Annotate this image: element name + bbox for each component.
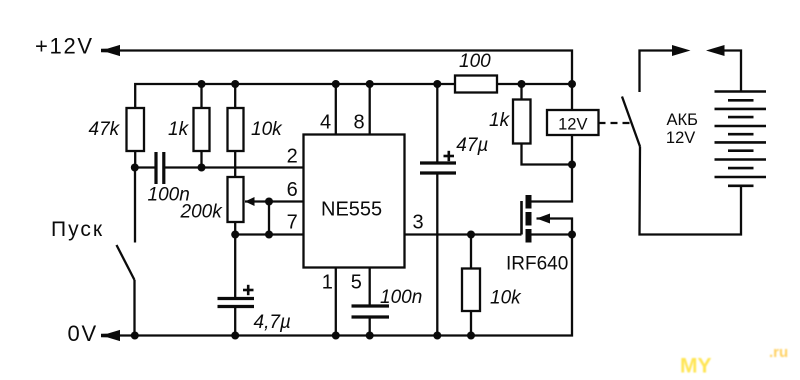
svg-text:47k: 47k [89,119,121,140]
capacitor C4 47µ electrolytic [420,84,456,336]
resistor R5 100 [455,76,497,93]
junction R7 bottom / ground rail [467,332,475,340]
C4 plus sign [444,151,455,161]
junction C4 bottom / ground rail [433,332,441,340]
wire ground rail [101,235,572,336]
junction R6 bottom / relay / drain [568,161,576,169]
svg-text:5: 5 [351,272,362,294]
op IC U1 NE555 [304,84,522,336]
junction pot bottom / pin7 net [231,231,239,239]
resistor R6 1k (gate feed) [513,84,572,165]
svg-text:4,7µ: 4,7µ [254,312,291,333]
svg-text:0V: 0V [68,321,99,346]
junction wiper / pin6 net [265,198,273,206]
junction link / pin7 net [265,231,273,239]
junction R2-1k bottom / pin2 net [198,164,206,172]
battery top arrow right [672,45,691,56]
svg-text:8: 8 [353,112,364,134]
Пуск switch S1 [117,168,136,336]
svg-text:10k: 10k [251,119,283,140]
svg-text:+12V: +12V [35,34,94,59]
svg-text:.ru: .ru [769,344,788,361]
C2 plus sign [243,285,254,295]
dashed link relay to switch [599,122,631,124]
svg-text:7: 7 [287,212,298,234]
battery loop wires [622,51,741,235]
junction C4-47u top / Vcc rail [433,80,441,88]
wire +12V top rail [102,51,573,85]
svg-text:1k: 1k [168,119,190,140]
svg-text:2: 2 [287,146,298,168]
junction pin1 / ground rail [332,332,340,340]
junction R7-10k top / pin3 net [467,231,475,239]
svg-text:12V: 12V [558,116,587,134]
svg-text:200k: 200k [180,202,224,223]
svg-text:4: 4 [320,112,331,134]
svg-text:3: 3 [412,212,423,234]
svg-text:47µ: 47µ [456,135,488,156]
potentiometer R4 200k [228,177,304,299]
junction source node [568,231,576,239]
capacitor C1 100n (series) [135,152,304,184]
resistor R3 10k [228,84,244,177]
svg-text:100n: 100n [380,287,422,308]
junction C2 bottom / ground rail [231,332,239,340]
svg-text:6: 6 [287,179,298,201]
svg-text:Пуск: Пуск [51,218,104,241]
junction R6-1k top / Vcc rail [518,80,526,88]
svg-text:IRF640: IRF640 [506,254,568,275]
Q1 body-diode arrow [537,214,551,224]
wire Vcc rail [135,84,572,108]
svg-text:1k: 1k [489,110,511,131]
transistor Q1 IRF640 [522,165,573,243]
0V arrow [101,330,120,341]
svg-text:100: 100 [459,51,491,72]
junction pin8 / Vcc rail [366,80,374,88]
capacitor C2 4,7µ electrolytic [218,299,255,336]
resistor R7 10k (gate) [462,235,480,336]
junction R2-1k top / Vcc rail [198,80,206,88]
capacitor C3 100n (pin 5) [352,306,390,336]
battery B1 plates [715,92,767,186]
resistor R2 1k [194,84,210,168]
svg-text:NE555: NE555 [321,199,382,221]
svg-text:12V: 12V [666,129,695,147]
junction C3 bottom / ground rail [366,332,374,340]
junction R3-10k top / Vcc rail [231,80,239,88]
svg-text:1: 1 [322,272,333,294]
junction switch / ground rail [131,332,139,340]
junction +12V feed / Vcc rail [568,80,576,88]
svg-text:MY: MY [680,355,712,378]
svg-text:АКБ: АКБ [666,111,697,129]
battery top arrow left [706,45,725,56]
+12V arrow [101,45,120,56]
junction R1-47k bottom / C1 [131,164,139,172]
svg-text:10k: 10k [490,288,522,309]
relay coil 12V box [547,84,599,165]
200k wiper arrow [245,197,255,206]
junction pin4 / Vcc rail [332,80,340,88]
resistor R1 47k [127,108,145,168]
